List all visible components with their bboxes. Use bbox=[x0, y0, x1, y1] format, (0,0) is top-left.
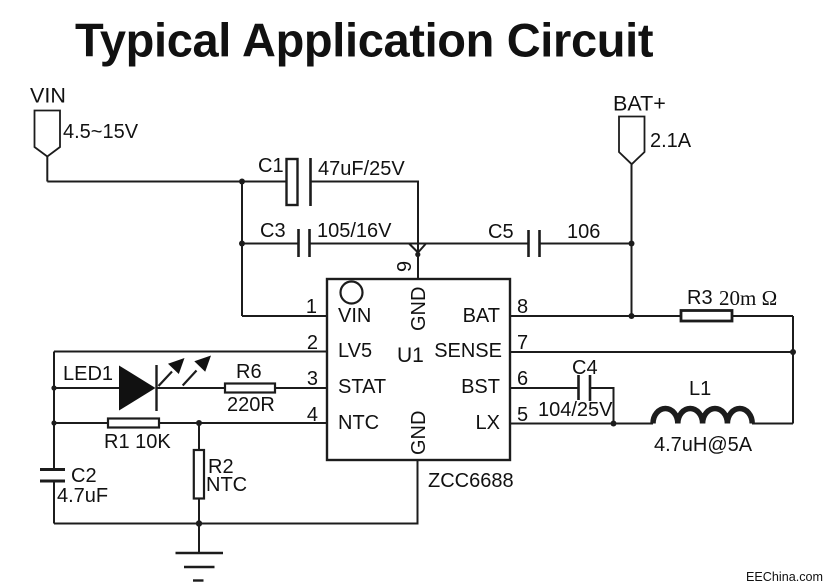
capacitor C5 bbox=[529, 230, 540, 257]
capacitor C2 bbox=[40, 470, 65, 482]
wire R6 to pin 3 bbox=[275, 387, 327, 389]
wire rail below C2 bbox=[53, 481, 55, 524]
wire pin 8 to R3 bbox=[510, 315, 681, 317]
svg-text:GND: GND bbox=[408, 287, 430, 331]
svg-text:ZCC6688: ZCC6688 bbox=[428, 470, 514, 492]
resistor R2 bbox=[194, 450, 204, 499]
wire C3 left bbox=[242, 243, 298, 245]
svg-text:8: 8 bbox=[517, 296, 528, 318]
wire left rail upper (VIN to C3 to pin1) bbox=[241, 182, 243, 317]
svg-text:VIN: VIN bbox=[338, 305, 371, 327]
wire to C1 left bbox=[242, 181, 286, 183]
svg-text:47uF/25V: 47uF/25V bbox=[318, 158, 405, 180]
svg-text:R1 10K: R1 10K bbox=[104, 431, 171, 453]
svg-text:9: 9 bbox=[394, 261, 416, 272]
junction R2 top bbox=[196, 420, 202, 426]
junction ground bbox=[196, 520, 202, 526]
capacitor C3 bbox=[299, 229, 310, 257]
wire pin 5 LX bbox=[510, 423, 653, 425]
svg-text:105/16V: 105/16V bbox=[317, 220, 392, 242]
LED arrow 2 bbox=[183, 356, 211, 386]
junction BAT+/pin8 bbox=[629, 313, 635, 319]
LED LED1 bbox=[119, 365, 157, 411]
svg-text:104/25V: 104/25V bbox=[538, 399, 613, 421]
svg-text:4.5~15V: 4.5~15V bbox=[63, 121, 139, 143]
resistor R3 bbox=[681, 311, 732, 322]
svg-text:NTC: NTC bbox=[338, 412, 379, 434]
wire R3 right bbox=[732, 315, 793, 317]
wire pin 1 bbox=[242, 315, 327, 317]
arrow into GND node bbox=[409, 244, 426, 253]
svg-text:VIN: VIN bbox=[30, 84, 66, 108]
svg-text:2.1A: 2.1A bbox=[650, 130, 692, 152]
svg-text:SENSE: SENSE bbox=[434, 340, 502, 362]
pin 1 marker circle bbox=[341, 282, 363, 304]
wire R2 bottom bbox=[198, 499, 200, 524]
svg-text:1: 1 bbox=[306, 296, 317, 318]
wire R1 to pin 4 bbox=[159, 422, 327, 424]
svg-text:4.7uH@5A: 4.7uH@5A bbox=[654, 434, 753, 456]
wire pin 4 to R1 bbox=[54, 422, 108, 424]
wire VIN horizontal bbox=[47, 181, 242, 183]
IC U1 body bbox=[327, 279, 510, 460]
junction BAT+/C5 bbox=[629, 241, 635, 247]
wire C1 right bbox=[311, 182, 419, 244]
svg-text:C1: C1 bbox=[258, 155, 284, 177]
svg-text:20m Ω: 20m Ω bbox=[719, 286, 777, 310]
svg-text:L1: L1 bbox=[689, 378, 711, 400]
svg-text:BST: BST bbox=[461, 376, 500, 398]
ground bbox=[176, 524, 224, 581]
inductor L1 bbox=[653, 408, 752, 423]
junction rail/pin4 bbox=[51, 420, 56, 425]
capacitor C4 bbox=[579, 375, 591, 401]
wire VIN stub down bbox=[46, 157, 48, 182]
svg-text:C2: C2 bbox=[71, 465, 97, 487]
wire left rail bbox=[53, 352, 55, 469]
wire right rail down bbox=[792, 316, 794, 424]
wire C5 right bbox=[540, 243, 632, 245]
wire C3 to C5 bbox=[310, 243, 529, 245]
svg-text:C3: C3 bbox=[260, 220, 286, 242]
connector BAT+ bbox=[619, 117, 645, 165]
wire pin 3 to LED bbox=[54, 387, 120, 389]
svg-text:R6: R6 bbox=[236, 361, 262, 383]
wire L1 right bbox=[752, 423, 793, 425]
junction SENSE/right rail bbox=[790, 349, 796, 355]
junction rail/pin3 bbox=[51, 385, 56, 390]
svg-text:STAT: STAT bbox=[338, 376, 386, 398]
wire BAT+ down bbox=[631, 164, 633, 316]
wire bottom rail bbox=[54, 460, 418, 524]
svg-text:BAT: BAT bbox=[463, 305, 500, 327]
svg-text:LX: LX bbox=[476, 412, 500, 434]
svg-text:7: 7 bbox=[517, 332, 528, 354]
wire C4 to LX bbox=[590, 388, 614, 424]
svg-text:C5: C5 bbox=[488, 221, 514, 243]
junction at C3 left bbox=[239, 241, 245, 247]
junction below arrow bbox=[415, 252, 420, 257]
svg-text:EEChina.com: EEChina.com bbox=[746, 570, 823, 584]
svg-text:4.7uF: 4.7uF bbox=[57, 485, 108, 507]
connector VIN bbox=[35, 111, 61, 157]
svg-text:BAT+: BAT+ bbox=[613, 92, 666, 116]
svg-text:U1: U1 bbox=[397, 344, 424, 367]
svg-text:C4: C4 bbox=[572, 357, 598, 379]
wire LED to R6 bbox=[157, 387, 226, 389]
capacitor C1 bbox=[287, 158, 311, 206]
svg-text:Typical Application Circuit: Typical Application Circuit bbox=[75, 13, 654, 66]
resistor R6 bbox=[225, 384, 275, 393]
wire pin 2 LV5 bbox=[54, 351, 327, 353]
svg-text:106: 106 bbox=[567, 221, 600, 243]
svg-text:6: 6 bbox=[517, 368, 528, 390]
wire pin 6 BST bbox=[510, 387, 578, 389]
svg-text:3: 3 bbox=[307, 368, 318, 390]
svg-text:LV5: LV5 bbox=[338, 340, 372, 362]
svg-text:NTC: NTC bbox=[206, 474, 247, 496]
wire pin 7 SENSE bbox=[510, 351, 793, 353]
wire R2 top bbox=[198, 423, 200, 450]
wire to pin 9 bbox=[417, 244, 419, 280]
svg-text:R3: R3 bbox=[687, 287, 713, 309]
resistor R1 bbox=[108, 419, 159, 428]
LED arrow 1 bbox=[159, 358, 185, 386]
junction at VIN/C1 bbox=[239, 179, 245, 185]
svg-text:GND: GND bbox=[408, 411, 430, 455]
junction C4/LX bbox=[611, 421, 617, 427]
svg-text:220R: 220R bbox=[227, 394, 275, 416]
svg-text:LED1: LED1 bbox=[63, 363, 113, 385]
